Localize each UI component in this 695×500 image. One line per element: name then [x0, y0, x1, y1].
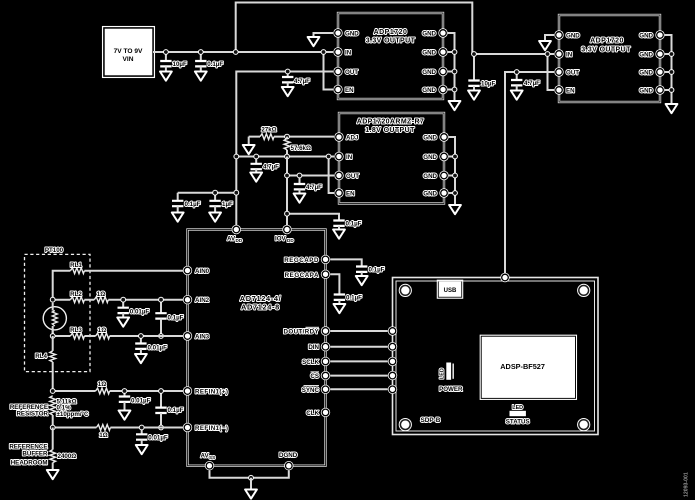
junction C10	[212, 190, 218, 196]
svg-text:STATUS: STATUS	[506, 419, 530, 426]
U4 pin AIN3	[183, 331, 210, 340]
junction OUT/IOVDD rail	[284, 173, 290, 179]
junction C16	[122, 388, 128, 394]
resistor Rlead2 1ohm	[96, 327, 110, 339]
junction AVDD deccap line	[233, 190, 239, 196]
svg-text:0.1µF: 0.1µF	[369, 267, 385, 274]
mounting hole bottom-left	[399, 418, 412, 431]
wire REFIN+ line	[53, 390, 183, 392]
ground for C15	[135, 354, 147, 363]
capacitor C9 0.1uF AVDD	[172, 201, 201, 213]
wire REFIN- line	[53, 427, 183, 429]
junction U2 rail b	[452, 173, 458, 179]
wire U1 GND4 stub	[448, 89, 455, 91]
svg-text:0.1µF: 0.1µF	[185, 201, 201, 208]
svg-text:IN: IN	[345, 50, 352, 57]
junction U3 rail b	[669, 69, 675, 75]
svg-text:BUFFER: BUFFER	[22, 451, 48, 458]
SDP pin SYNC	[388, 385, 397, 394]
SDP pin DIN	[388, 342, 397, 351]
regulator U3 ADP1720 3.3V right box	[559, 15, 660, 102]
junction C13	[120, 297, 126, 303]
junction refp	[50, 388, 56, 394]
mounting hole top-left	[399, 284, 412, 297]
junction VIN/C1	[163, 49, 169, 55]
svg-text:REFERENCE: REFERENCE	[9, 444, 47, 451]
U4 pin DIN	[308, 342, 330, 351]
svg-text:0.01µF: 0.01µF	[130, 309, 150, 316]
wire DIN to SDP	[330, 346, 388, 348]
svg-text:GND: GND	[422, 50, 436, 57]
U4 pin REGCAPA	[285, 270, 331, 279]
wire U2 right GND rail	[449, 137, 455, 205]
svg-text:GND: GND	[423, 135, 437, 142]
wire RL1 line to AIN0	[53, 271, 183, 300]
wire U1 right GND rail	[448, 33, 455, 101]
U1 pin GND3 right	[422, 67, 447, 76]
U2 pin ADJ	[334, 132, 359, 141]
U2 pin GND4 right	[423, 188, 448, 197]
wire U3 GND4 stub	[665, 89, 672, 91]
svg-text:RESISTOR: RESISTOR	[16, 411, 48, 418]
dashed box PT100 RTD	[25, 247, 91, 372]
junction U3 rail c	[669, 87, 675, 93]
U3 pin GND2 right	[639, 49, 664, 58]
junction C15	[138, 333, 144, 339]
U3 pin GND left	[554, 30, 580, 39]
U3 pin GND3 right	[639, 67, 664, 76]
U2 pin GND2 right	[423, 152, 448, 161]
U3 pin IN	[554, 49, 572, 58]
svg-text:ADP1720: ADP1720	[590, 38, 624, 45]
junction U2 rail a	[452, 154, 458, 160]
U1 pin GND4 right	[422, 85, 447, 94]
U4 pin REFIN1(-)	[183, 423, 229, 432]
svg-text:0.01µF: 0.01µF	[148, 435, 168, 442]
wire IOVDD 0.1uF branch	[287, 214, 339, 221]
ground for C8	[333, 230, 345, 239]
U2 pin EN	[334, 188, 355, 197]
wire U2 GND4 stub	[449, 192, 455, 194]
ground reference chain	[47, 470, 59, 479]
junction C18	[139, 425, 145, 431]
U4 pin AVSS bottom	[201, 453, 216, 471]
svg-text:AD7124-8: AD7124-8	[241, 303, 280, 312]
U4 pin SCLK	[302, 357, 330, 366]
regulator U1 ADP1720 3.3V box	[338, 13, 443, 99]
svg-text:1Ω: 1Ω	[99, 432, 107, 439]
capacitor C17 0.1uF diff REFIN	[155, 391, 183, 428]
svg-text:1Ω: 1Ω	[97, 291, 105, 298]
resistor Rlead1 1ohm	[94, 291, 108, 303]
SDP pin DOUT	[388, 326, 397, 335]
resistor R2 57.6k vertical	[284, 137, 311, 157]
svg-text:SCLK: SCLK	[302, 359, 319, 366]
junction C4	[471, 51, 477, 57]
svg-text:DD: DD	[236, 238, 243, 243]
svg-text:POWER: POWER	[439, 386, 463, 393]
wire U1 GND stub	[314, 33, 334, 37]
mounting hole top-right	[577, 284, 590, 297]
svg-text:OUT: OUT	[345, 69, 358, 76]
junction C17 top	[158, 388, 164, 394]
U2 pin GND1 right	[423, 132, 448, 141]
svg-text:AIN2: AIN2	[195, 297, 210, 304]
svg-text:0.1µF: 0.1µF	[346, 221, 362, 228]
ground U3 right rail	[666, 104, 678, 113]
U2 pin GND3 right	[423, 171, 448, 180]
svg-text:7V TO 9V: 7V TO 9V	[114, 48, 143, 55]
ground for 27k	[243, 145, 255, 154]
U1 pin GND2 right	[422, 47, 447, 56]
ground U1 left	[308, 37, 320, 46]
wire DOUT to SDP	[330, 330, 388, 332]
LED power indicator	[440, 363, 455, 380]
svg-text:DD: DD	[287, 238, 294, 243]
resistor RREF 5.11k vertical	[50, 396, 89, 428]
U3 pin OUT	[554, 67, 579, 76]
capacitor C12 0.1uF REGCAPA	[334, 295, 362, 305]
capacitor C6 4.7uF on U2 IN	[251, 157, 280, 173]
wire U2 GND2 stub	[449, 156, 455, 158]
svg-text:RL1: RL1	[70, 262, 82, 269]
svg-text:10µF: 10µF	[481, 81, 495, 88]
capacitor C3 4.7uF on U1 OUT	[282, 72, 310, 88]
svg-text:AIN3: AIN3	[195, 334, 210, 341]
label REFERENCE BUFFER HEADROOM	[9, 444, 48, 467]
junction VIN/C2	[198, 49, 204, 55]
svg-text:±10ppm/°C: ±10ppm/°C	[57, 411, 90, 418]
svg-text:OUT: OUT	[346, 173, 359, 180]
ground for C1	[160, 72, 172, 81]
svg-text:GND: GND	[422, 31, 436, 38]
resistor Rlead4 1ohm	[96, 425, 110, 440]
svg-text:ADJ: ADJ	[346, 135, 359, 142]
svg-text:AIN0: AIN0	[195, 268, 210, 275]
svg-text:REFIN1(+): REFIN1(+)	[195, 389, 228, 396]
ground for C13	[117, 318, 129, 327]
U3 pin GND1 right	[639, 30, 664, 39]
svg-text:3.3V OUTPUT: 3.3V OUTPUT	[366, 38, 416, 45]
svg-text:0.1µF: 0.1µF	[168, 315, 184, 322]
capacitor C15 0.01uF AIN3	[135, 336, 167, 354]
junction U1 rail b	[452, 69, 458, 75]
resistor RL1	[70, 262, 84, 274]
wire REGCAPD branch	[330, 259, 362, 266]
junction U2 EN tie	[326, 154, 332, 160]
SDP top supply pin	[500, 273, 509, 282]
wire VIN to right regulator IN	[472, 53, 554, 55]
wire U2 OUT to IOVDD rail	[287, 175, 334, 177]
svg-text:DIN: DIN	[308, 344, 319, 351]
ground for C12	[334, 304, 346, 313]
svg-text:PT100: PT100	[45, 247, 64, 254]
wire U3 right GND rail	[665, 35, 672, 104]
wire U1 EN tie	[324, 52, 334, 90]
svg-text:27kΩ: 27kΩ	[261, 127, 276, 134]
junction IN line 57.6k	[284, 154, 290, 160]
svg-text:GND: GND	[639, 88, 653, 95]
junction C14 bottom	[158, 333, 164, 339]
junction U3 rail a	[669, 51, 675, 57]
svg-text:4.7µF: 4.7µF	[294, 78, 310, 85]
capacitor C18 0.01uF REFIN-	[136, 428, 168, 446]
junction VIN riser	[233, 49, 239, 55]
U4 pin AIN2	[183, 295, 210, 304]
junction C5	[514, 69, 520, 75]
svg-text:DGND: DGND	[279, 452, 298, 459]
junction refm	[50, 425, 56, 431]
svg-text:GND: GND	[423, 173, 437, 180]
svg-text:LED: LED	[440, 368, 446, 379]
ground for C16	[119, 411, 131, 420]
SDP-B board	[393, 278, 599, 435]
svg-text:GND: GND	[566, 33, 580, 40]
wire REGCAPA branch	[330, 274, 339, 294]
capacitor C2 0.1uF	[195, 52, 223, 72]
U4 pin SYNC	[302, 385, 330, 394]
svg-text:EN: EN	[566, 88, 575, 95]
ground for C5	[511, 91, 523, 100]
junction U1 rail a	[452, 49, 458, 55]
capacitor C1 10uF	[160, 52, 187, 72]
wire IOVDD rail down	[286, 157, 288, 226]
svg-text:0.1µF: 0.1µF	[346, 295, 362, 302]
wire AVDD decoupling line	[178, 193, 237, 201]
svg-text:IOV: IOV	[275, 236, 287, 243]
wire SCLK to SDP	[330, 360, 388, 362]
U1 pin EN	[333, 85, 354, 94]
svg-text:10µF: 10µF	[173, 61, 187, 68]
U4 pin DOUT/RDY	[283, 326, 330, 335]
svg-text:HEADROOM: HEADROOM	[11, 460, 48, 467]
capacitor C11 0.1uF REGCAPD	[356, 267, 385, 277]
capacitor C14 0.1uF diff AIN2/AIN3	[155, 300, 183, 336]
svg-text:RL2: RL2	[70, 291, 82, 298]
processor ADSP-BF527 box	[480, 335, 576, 399]
svg-text:1Ω: 1Ω	[98, 381, 106, 388]
junction U1 rail c	[452, 87, 458, 93]
ground U1 right rail	[449, 101, 461, 110]
junction RTD top	[50, 297, 56, 303]
junction C7	[297, 173, 303, 179]
svg-text:GND: GND	[423, 154, 437, 161]
resistor R1 27k	[260, 127, 277, 140]
svg-text:CLK: CLK	[306, 410, 319, 417]
label REFERENCE RESISTOR	[10, 404, 49, 418]
ground for C6	[250, 173, 262, 182]
mounting hole bottom-right	[577, 418, 590, 431]
svg-text:ADSP-BF527: ADSP-BF527	[500, 362, 545, 371]
ground U3 left	[539, 41, 551, 50]
ground U4 bottom	[245, 490, 257, 499]
junction C14 top	[158, 297, 164, 303]
junction bottom ground	[248, 475, 254, 481]
wire VIN rail to ADP1720 IN	[153, 51, 333, 53]
wire RL2 line to AIN2	[53, 299, 183, 301]
junction AVDD/IN line	[233, 154, 239, 160]
U1 pin GND1 right	[422, 28, 447, 37]
wire ADJ line	[249, 136, 334, 138]
U4 pin IOVDD top	[275, 225, 294, 243]
svg-text:LED: LED	[512, 405, 523, 411]
svg-text:IN: IN	[566, 52, 573, 59]
U2 pin IN	[334, 152, 352, 161]
svg-text:1Ω: 1Ω	[98, 327, 106, 334]
svg-text:ADP1720: ADP1720	[374, 29, 408, 36]
svg-text:USB: USB	[444, 288, 457, 294]
ground for C11	[356, 276, 368, 285]
junction IOVDD branch	[284, 211, 290, 217]
ADC U4 AD7124-4/AD7124-8 box	[188, 230, 326, 466]
svg-text:3.3V OUTPUT: 3.3V OUTPUT	[581, 46, 631, 53]
USB connector box	[437, 280, 462, 298]
svg-text:2400Ω: 2400Ω	[58, 453, 77, 460]
svg-text:GND: GND	[639, 52, 653, 59]
ground U2 right rail	[449, 205, 461, 214]
wire U2 EN tie	[329, 157, 334, 194]
wire U1 GND2 stub	[448, 51, 455, 53]
U4 pin CS	[310, 371, 330, 380]
svg-text:CS: CS	[310, 373, 319, 380]
svg-text:OUT: OUT	[566, 70, 579, 77]
svg-text:ADP1720ARMZ-R7: ADP1720ARMZ-R7	[357, 119, 424, 126]
U1 pin IN	[333, 47, 351, 56]
junction C6	[253, 154, 259, 160]
wire RL3 line to AIN3	[53, 330, 183, 336]
junction U1 EN tie	[321, 49, 327, 55]
junction U2 rail c	[452, 190, 458, 196]
U1 pin GND left	[333, 28, 359, 37]
wire AVDD to U2 IN	[236, 156, 334, 158]
junction RTD bottom	[50, 333, 56, 339]
U4 pin CLK	[306, 408, 330, 417]
svg-text:GND: GND	[422, 69, 436, 76]
wire bottom ground stub	[250, 478, 252, 490]
capacitor C7 4.7uF on U2 OUT	[294, 176, 322, 194]
U4 pin AIN0	[183, 266, 210, 275]
SDP pin CS	[388, 371, 397, 380]
wire CS to SDP	[330, 375, 388, 377]
wire U3 GND3 stub	[665, 71, 672, 73]
power source box 7V TO 9V VIN	[103, 27, 155, 78]
svg-text:EN: EN	[345, 87, 354, 94]
svg-text:REGCAPA: REGCAPA	[285, 272, 319, 279]
wire U3 EN tie	[548, 54, 555, 90]
svg-text:REFIN1(−): REFIN1(−)	[195, 425, 228, 432]
ground for C3	[282, 87, 294, 96]
svg-text:EN: EN	[346, 191, 355, 198]
resistor RL2	[70, 291, 84, 303]
svg-text:4.7µF: 4.7µF	[263, 164, 279, 171]
svg-text:1µF: 1µF	[222, 201, 233, 208]
ground for C9	[172, 213, 184, 222]
junction C17 bottom	[158, 425, 164, 431]
ground for C10	[209, 213, 221, 222]
wire U1 GND3 stub	[448, 71, 455, 73]
U4 pin REFIN1(+)	[183, 386, 229, 395]
U1 pin OUT	[333, 67, 358, 76]
svg-text:1.8V OUTPUT: 1.8V OUTPUT	[365, 127, 415, 134]
wire SYNC to SDP	[330, 388, 388, 390]
svg-text:IN: IN	[346, 154, 353, 161]
junction C3	[285, 69, 291, 75]
svg-text:GND: GND	[422, 87, 436, 94]
svg-text:DOUT/RDY: DOUT/RDY	[283, 329, 319, 336]
svg-text:SS: SS	[209, 455, 215, 460]
wire U1 OUT rail to AVDD rail	[236, 72, 333, 226]
wire U3 OUT rail down to SDP	[505, 72, 554, 273]
svg-text:0.1µF: 0.1µF	[207, 61, 223, 68]
resistor RL3	[70, 327, 84, 339]
capacitor C16 0.01uF REFIN+	[119, 391, 151, 411]
svg-text:0.1µF: 0.1µF	[168, 407, 184, 414]
svg-text:GND: GND	[639, 70, 653, 77]
capacitor C10 1uF AVDD	[209, 193, 233, 213]
capacitor C13 0.01uF AIN2	[118, 300, 150, 318]
svg-text:12093-001: 12093-001	[683, 472, 689, 497]
capacitor C4 10uF at right VIN branch	[468, 54, 495, 91]
svg-text:SDP-B: SDP-B	[421, 417, 441, 424]
ground for C18	[136, 445, 148, 454]
ground for C2	[195, 72, 207, 81]
U4 pin DGND bottom	[279, 452, 298, 470]
svg-text:RL3: RL3	[70, 327, 82, 334]
svg-text:0.01µF: 0.01µF	[131, 398, 151, 405]
svg-text:RL4: RL4	[35, 353, 47, 360]
U3 pin GND4 right	[639, 85, 664, 94]
junction ADJ/57.6k	[284, 134, 290, 140]
svg-text:GND: GND	[639, 33, 653, 40]
svg-text:57.6kΩ: 57.6kΩ	[291, 145, 311, 152]
U3 pin EN	[554, 85, 575, 94]
resistor Rlead3 1ohm	[96, 381, 110, 394]
wire U2 GND3 stub	[449, 175, 455, 177]
wire ADJ gnd stub	[248, 137, 250, 145]
RTD element circle	[43, 303, 66, 334]
svg-text:VIN: VIN	[123, 56, 134, 63]
ground for C4	[468, 91, 480, 100]
resistor RL4 vertical	[35, 336, 55, 391]
wire U3 GND2 stub	[665, 53, 672, 55]
U4 pin REGCAPD	[284, 255, 330, 264]
svg-text:4.7µF: 4.7µF	[524, 80, 540, 87]
ground for C7	[294, 194, 306, 203]
regulator U2 ADP1720ARMZ-R7 1.8V box	[339, 113, 444, 204]
U4 pin AVDD top	[227, 225, 243, 243]
svg-text:0.01µF: 0.01µF	[148, 345, 168, 352]
svg-text:4.7µF: 4.7µF	[306, 184, 322, 191]
svg-text:GND: GND	[423, 191, 437, 198]
svg-text:GND: GND	[345, 31, 359, 38]
wire AVSS stub down	[210, 470, 289, 477]
wire VIN riser up	[236, 3, 473, 55]
U2 pin OUT	[334, 171, 359, 180]
wire U3 GND stub	[545, 35, 554, 41]
junction U3 EN tie	[545, 51, 551, 57]
LED status indicator	[510, 405, 526, 416]
resistor RHEAD headroom vertical	[50, 428, 76, 471]
svg-text:SYNC: SYNC	[302, 387, 320, 394]
svg-text:REGCAPD: REGCAPD	[284, 257, 319, 264]
SDP pin SCLK	[388, 357, 397, 366]
capacitor C8 0.1uF IOVDD	[333, 221, 361, 230]
capacitor C5 4.7uF on U3 OUT	[511, 72, 540, 91]
